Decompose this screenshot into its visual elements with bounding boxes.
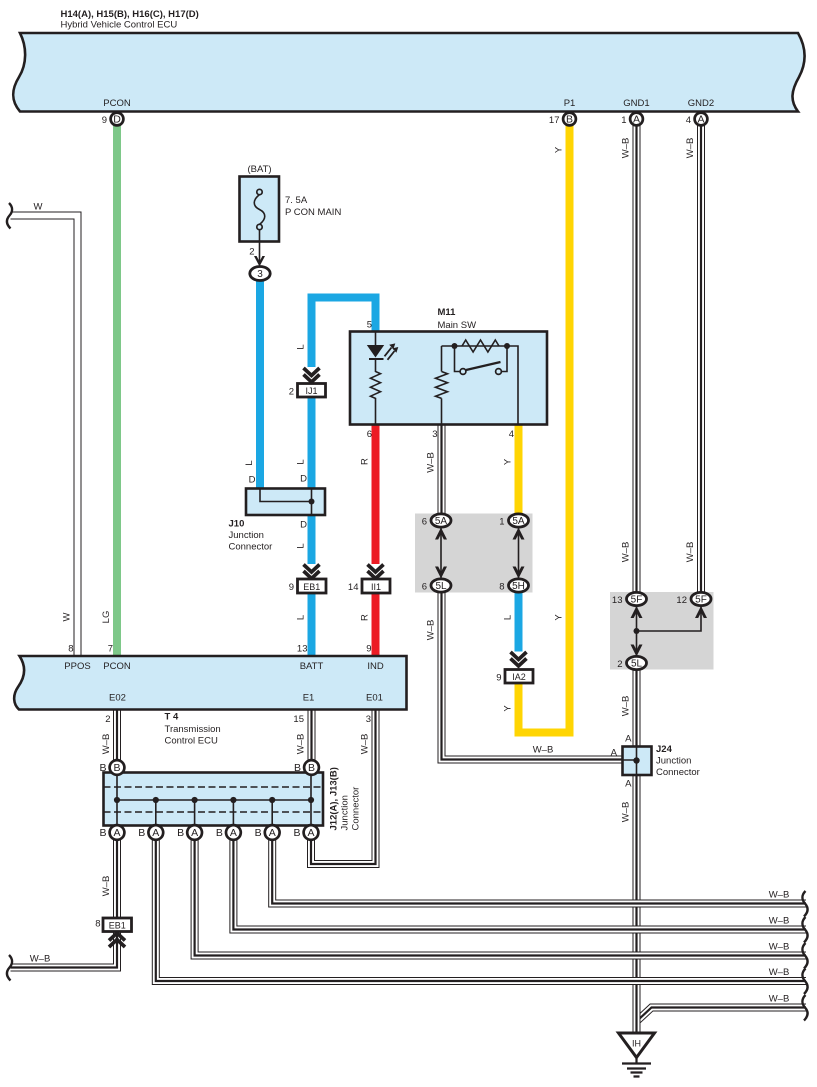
svg-text:Y: Y bbox=[503, 705, 514, 712]
svg-text:B: B bbox=[177, 827, 184, 839]
svg-text:A: A bbox=[113, 827, 120, 839]
svg-text:W–B: W–B bbox=[685, 542, 696, 563]
label B at J12 circle A3 bbox=[177, 827, 184, 839]
wire L blue from fuse circle 3 down to J10 bbox=[256, 281, 264, 490]
svg-text:B: B bbox=[255, 827, 262, 839]
svg-text:A: A bbox=[633, 114, 640, 126]
svg-text:J12(A), J13(B): J12(A), J13(B) bbox=[329, 767, 340, 830]
M11 horizontal resistor bbox=[462, 340, 499, 352]
label W-B ground wire below J24 bbox=[621, 802, 632, 823]
svg-text:5F: 5F bbox=[695, 594, 707, 605]
ECU block H14(A) H15(B) H16(C) H17(D) Hybrid Vehicle Control ECU bbox=[13, 33, 804, 112]
J12 circle A1 bbox=[110, 825, 125, 840]
connector EB1 bottom box pin 8 bbox=[103, 918, 132, 932]
svg-text:(BAT): (BAT) bbox=[247, 164, 271, 175]
label connector 1-5A bbox=[499, 517, 504, 528]
svg-text:9: 9 bbox=[102, 115, 107, 126]
wire break symbol right 4 bbox=[802, 969, 807, 995]
label L right wire above J10 bbox=[296, 459, 307, 464]
wire R red from M11 pin 6 to II1 bbox=[372, 425, 380, 565]
svg-text:D: D bbox=[300, 474, 307, 485]
svg-text:8: 8 bbox=[68, 644, 73, 655]
wire Y yellow from M11 pin 4 to connector 1-5A bbox=[515, 425, 523, 521]
svg-text:W–B: W–B bbox=[101, 734, 112, 755]
label W-B right edge 4 bbox=[769, 967, 790, 978]
wire break symbol right 1 bbox=[802, 891, 807, 917]
label W-B below T4 E01 bbox=[360, 734, 371, 755]
svg-text:W–B: W–B bbox=[426, 452, 437, 473]
label T4 E1 pin bbox=[293, 693, 314, 726]
label T4 title bbox=[165, 712, 221, 747]
svg-text:2: 2 bbox=[249, 247, 254, 258]
pin 4 circle A on H14 GND2 bbox=[695, 113, 708, 126]
svg-text:13: 13 bbox=[297, 644, 308, 655]
label Y below IA2 bbox=[503, 705, 514, 712]
svg-text:EB1: EB1 bbox=[303, 582, 320, 592]
wire break symbol right 3 bbox=[802, 943, 807, 969]
svg-text:Y: Y bbox=[554, 614, 565, 621]
svg-text:W–B: W–B bbox=[621, 542, 632, 563]
wire W-B from H14 GND1 pin 1A to connector 13-5F bbox=[633, 126, 641, 600]
wire W-B from connector 6-5L down and right to J24 bbox=[442, 586, 624, 760]
svg-text:4: 4 bbox=[686, 115, 691, 126]
connector 2-5L ellipse bbox=[627, 656, 647, 669]
label W-B on M11 pin3 wire bbox=[426, 452, 437, 473]
svg-text:W–B: W–B bbox=[621, 696, 632, 717]
svg-text:D: D bbox=[249, 475, 256, 486]
label L left wire above J10 bbox=[244, 460, 255, 465]
svg-text:8: 8 bbox=[499, 582, 504, 593]
connector IJ1 arrow bbox=[304, 368, 320, 382]
label B at J12 circle B left bbox=[99, 762, 106, 774]
svg-text:1: 1 bbox=[499, 517, 504, 528]
svg-text:II1: II1 bbox=[371, 582, 381, 592]
wire R red segment II1 to T4 IND pin 9 bbox=[372, 592, 380, 656]
label T4 IND pin bbox=[366, 644, 384, 673]
svg-text:PCON: PCON bbox=[103, 98, 131, 109]
label W horizontal bbox=[34, 202, 43, 213]
svg-text:P CON MAIN: P CON MAIN bbox=[285, 207, 341, 218]
label Y on P1 wire mid bbox=[554, 614, 565, 621]
connector IJ1 box pin 2 bbox=[298, 384, 326, 398]
M11 resistor below LED bbox=[371, 372, 381, 425]
svg-text:17: 17 bbox=[549, 115, 560, 126]
pin 17 circle B on H14 P1 bbox=[563, 113, 576, 126]
svg-text:8: 8 bbox=[95, 919, 100, 930]
label A above J24 bbox=[625, 734, 632, 745]
svg-text:5L: 5L bbox=[631, 658, 643, 669]
svg-text:6: 6 bbox=[422, 517, 427, 528]
svg-text:L: L bbox=[296, 344, 307, 349]
svg-text:A: A bbox=[697, 114, 704, 126]
label II1 pin 14 bbox=[348, 582, 359, 593]
wire W-B branch from ground wire to right edge break bbox=[638, 1008, 807, 1021]
label W-B below T4 E1 bbox=[296, 734, 307, 755]
wire L blue from connector 8-5H down to IA2 bbox=[515, 586, 523, 652]
label W-B right edge 3 bbox=[769, 942, 790, 953]
label W-B right edge 1 bbox=[769, 890, 790, 901]
connector shield box 5F/5L bbox=[610, 592, 714, 670]
connector II1 arrow bbox=[368, 565, 384, 579]
label T4 E01 pin bbox=[366, 693, 383, 726]
label L above T4 BATT bbox=[296, 615, 307, 620]
svg-text:W–B: W–B bbox=[30, 954, 51, 965]
svg-text:T 4: T 4 bbox=[165, 712, 179, 723]
svg-text:E02: E02 bbox=[109, 693, 126, 704]
M11 Main SW box bbox=[350, 332, 547, 425]
pin 9 circle D on H14 PCON bbox=[111, 113, 124, 126]
svg-text:Connector: Connector bbox=[656, 767, 700, 778]
label connector 8-5H bbox=[499, 582, 504, 593]
svg-text:LG: LG bbox=[101, 611, 112, 624]
svg-text:IA2: IA2 bbox=[512, 672, 526, 682]
svg-text:L: L bbox=[244, 460, 255, 465]
J12 circle A5 bbox=[265, 825, 280, 840]
svg-text:A: A bbox=[230, 827, 237, 839]
svg-text:B: B bbox=[99, 762, 106, 774]
label T4 E02 pin bbox=[105, 693, 126, 726]
wire L blue segment below IJ1 to J10 bbox=[308, 383, 316, 490]
svg-text:P1: P1 bbox=[564, 98, 576, 109]
svg-text:9: 9 bbox=[496, 673, 501, 684]
svg-text:J24: J24 bbox=[656, 744, 673, 755]
label B at J12 circle A2 bbox=[138, 827, 145, 839]
svg-text:L: L bbox=[503, 615, 514, 620]
label B at J12 circle A4 bbox=[216, 827, 223, 839]
label W-B above EB1 bottom bbox=[101, 876, 112, 897]
label GND1 pin bbox=[621, 98, 650, 126]
wire W-B from H14 GND2 pin 4A to connector 12-5F bbox=[697, 126, 705, 600]
svg-text:B: B bbox=[293, 827, 300, 839]
svg-text:BATT: BATT bbox=[300, 661, 324, 672]
connector 8-5H ellipse bbox=[509, 579, 529, 592]
wire W-B from J12 circle A1 through EB1 to left break bbox=[11, 840, 118, 968]
connector 1-5A ellipse bbox=[509, 514, 529, 527]
svg-text:R: R bbox=[360, 614, 371, 621]
fuse 7.5A P CON MAIN bbox=[240, 177, 280, 263]
svg-text:GND1: GND1 bbox=[623, 98, 649, 109]
wire W-B from J12 circle A4 to right edge break bbox=[233, 840, 806, 930]
label PCON pin bbox=[102, 98, 131, 126]
svg-text:2: 2 bbox=[105, 714, 110, 725]
svg-text:W–B: W–B bbox=[621, 802, 632, 823]
label W-B GND1 top bbox=[621, 138, 632, 159]
svg-text:W–B: W–B bbox=[769, 890, 790, 901]
svg-text:W–B: W–B bbox=[360, 734, 371, 755]
svg-text:W–B: W–B bbox=[621, 138, 632, 159]
label R above II1 bbox=[360, 458, 371, 465]
svg-text:W–B: W–B bbox=[426, 620, 437, 641]
M11 node dots bbox=[452, 343, 511, 349]
label W-B bottom left bbox=[30, 954, 51, 965]
label J10 title bbox=[229, 519, 273, 553]
svg-text:W: W bbox=[34, 202, 43, 213]
label EB1 pin 9 bbox=[289, 582, 294, 593]
svg-text:PCON: PCON bbox=[103, 661, 131, 672]
svg-text:A: A bbox=[611, 748, 618, 759]
wire break symbol left W bbox=[7, 203, 12, 229]
label connector 2-5L bbox=[617, 659, 622, 670]
label H14 title bbox=[61, 9, 199, 31]
wire W-B from M11 pin 3 to connector 6-5A bbox=[438, 425, 446, 521]
svg-text:B: B bbox=[113, 762, 120, 774]
wire break symbol right 2 bbox=[802, 917, 807, 943]
label A below J24 bbox=[625, 779, 632, 790]
wire W-B from T4 E1 pin 15 to J12 circle B bbox=[308, 710, 316, 768]
label J12 title rotated bbox=[329, 767, 362, 830]
ECU block T4 Transmission Control ECU bbox=[14, 656, 406, 710]
svg-text:W–B: W–B bbox=[769, 994, 790, 1005]
label W-B ground wire bbox=[621, 696, 632, 717]
svg-text:B: B bbox=[216, 827, 223, 839]
label D left wire above J10 bbox=[249, 475, 256, 486]
svg-text:B: B bbox=[308, 762, 315, 774]
label EB1 bottom pin 8 bbox=[95, 919, 100, 930]
wire L blue from J10 up and right to M11 pin 5 bbox=[312, 298, 376, 368]
label connector 6-5A bbox=[422, 517, 427, 528]
svg-text:3: 3 bbox=[366, 714, 371, 725]
wire break symbol right 5 bbox=[802, 995, 807, 1021]
svg-text:IH: IH bbox=[632, 1039, 641, 1049]
connector EB1 box pin 9 bbox=[298, 579, 327, 593]
svg-text:5A: 5A bbox=[435, 516, 448, 527]
label M11 pin 4 bbox=[509, 429, 514, 440]
svg-text:W–B: W–B bbox=[101, 876, 112, 897]
link between 5A and 5L with arrows bbox=[435, 528, 447, 579]
svg-text:PPOS: PPOS bbox=[64, 661, 90, 672]
svg-text:A: A bbox=[625, 734, 632, 745]
pin 1 circle A on H14 GND1 bbox=[630, 113, 643, 126]
svg-text:M11: M11 bbox=[438, 307, 457, 318]
svg-text:Junction: Junction bbox=[229, 530, 264, 541]
J12 circle B left bbox=[110, 760, 125, 775]
svg-text:3: 3 bbox=[257, 269, 263, 280]
wire L blue segment J10 to EB1 bbox=[308, 514, 316, 564]
label GND2 pin bbox=[686, 98, 715, 126]
svg-text:A: A bbox=[191, 827, 198, 839]
svg-text:E01: E01 bbox=[366, 693, 383, 704]
svg-text:9: 9 bbox=[289, 582, 294, 593]
label M11 title bbox=[438, 307, 477, 331]
label M11 pin 5 bbox=[367, 320, 372, 331]
label W-B right edge 2 bbox=[769, 916, 790, 927]
label W-B on M11 pin3 wire lower bbox=[426, 620, 437, 641]
arrow into fuse output circle 3 bbox=[254, 256, 265, 267]
label L above IA2 bbox=[503, 615, 514, 620]
label D right wire above J10 bbox=[300, 474, 307, 485]
wire W-B from J12 circle A3 to right edge break bbox=[195, 840, 806, 956]
J12 circle B right bbox=[304, 760, 319, 775]
svg-text:W–B: W–B bbox=[296, 734, 307, 755]
svg-text:B: B bbox=[294, 762, 301, 774]
svg-text:13: 13 bbox=[612, 595, 623, 606]
J12 circle A3 bbox=[187, 825, 202, 840]
svg-text:5: 5 bbox=[367, 320, 372, 331]
label W-B right edge 5 bbox=[769, 994, 790, 1005]
M11 LED indicator bbox=[367, 332, 399, 373]
svg-text:3: 3 bbox=[432, 429, 437, 440]
connector IA2 arrow bbox=[511, 652, 527, 666]
svg-text:5L: 5L bbox=[435, 581, 447, 592]
svg-text:14: 14 bbox=[348, 582, 359, 593]
wire W-B from J12 circle A2 to right edge break bbox=[156, 840, 806, 981]
svg-text:6: 6 bbox=[422, 582, 427, 593]
svg-text:12: 12 bbox=[676, 595, 687, 606]
svg-text:5A: 5A bbox=[512, 516, 525, 527]
label W-B below T4 E02 bbox=[101, 734, 112, 755]
wire W-B main ground from connector 2-5L through J24 to ground IH bbox=[633, 663, 641, 1033]
label W vertical bbox=[62, 612, 73, 621]
wire Y yellow from H14 pin 17B P1 down, left, up to IA2 bbox=[519, 126, 570, 733]
svg-text:6: 6 bbox=[367, 429, 372, 440]
svg-text:15: 15 bbox=[293, 714, 304, 725]
label T4 BATT pin bbox=[297, 644, 324, 673]
svg-text:2: 2 bbox=[289, 387, 294, 398]
label P1 pin bbox=[549, 98, 575, 126]
svg-text:Main SW: Main SW bbox=[438, 320, 477, 331]
svg-text:Control ECU: Control ECU bbox=[165, 736, 218, 747]
svg-text:W–B: W–B bbox=[533, 745, 554, 756]
svg-text:1: 1 bbox=[621, 115, 626, 126]
svg-text:GND2: GND2 bbox=[688, 98, 714, 109]
svg-text:A: A bbox=[269, 827, 276, 839]
junction connector J24 box bbox=[623, 747, 652, 776]
svg-text:Junction: Junction bbox=[656, 756, 691, 767]
connector IA2 box pin 9 bbox=[505, 670, 533, 684]
label M11 pin 6 bbox=[367, 429, 372, 440]
svg-text:4: 4 bbox=[509, 429, 514, 440]
M11 switch bbox=[455, 346, 508, 374]
svg-text:Y: Y bbox=[503, 458, 514, 465]
M11 resistor on pin 3 branch bbox=[436, 346, 448, 425]
J12 circle A4 bbox=[226, 825, 241, 840]
connector 6-5A ellipse bbox=[431, 514, 451, 527]
svg-text:Y: Y bbox=[554, 146, 565, 153]
svg-text:B: B bbox=[566, 114, 573, 126]
svg-text:J10: J10 bbox=[229, 519, 245, 530]
label Y on M11 pin4 wire bbox=[503, 458, 514, 465]
svg-text:7. 5A: 7. 5A bbox=[285, 195, 308, 206]
label A left of J24 bbox=[611, 748, 618, 759]
label W-B GND2 lower bbox=[685, 542, 696, 563]
connector EB1 bottom arrow bbox=[109, 933, 125, 947]
label B at J12 circle A6 bbox=[293, 827, 300, 839]
connector 6-5L ellipse bbox=[431, 579, 451, 592]
svg-text:E1: E1 bbox=[303, 693, 315, 704]
svg-text:2: 2 bbox=[617, 659, 622, 670]
svg-text:A: A bbox=[152, 827, 159, 839]
svg-text:L: L bbox=[296, 615, 307, 620]
label connector 6-5L bbox=[422, 582, 427, 593]
svg-text:A: A bbox=[307, 827, 314, 839]
svg-text:Connector: Connector bbox=[229, 542, 273, 553]
svg-text:Hybrid Vehicle Control ECU: Hybrid Vehicle Control ECU bbox=[61, 20, 178, 31]
svg-text:W–B: W–B bbox=[769, 916, 790, 927]
label IJ1 pin 2 bbox=[289, 387, 294, 398]
label BAT fuse bbox=[247, 164, 341, 258]
M11 internal node wiring bbox=[442, 346, 519, 425]
connector EB1 arrow mid bbox=[304, 565, 320, 579]
label IA2 pin 9 bbox=[496, 673, 501, 684]
wire PCON green LG from H14 pin 9D to T4 pin 7 bbox=[113, 126, 121, 657]
svg-text:D: D bbox=[300, 520, 307, 531]
wire L blue segment EB1 to T4 BATT pin 13 bbox=[308, 592, 316, 656]
wire break symbol left W-B bottom bbox=[7, 955, 12, 981]
label W-B GND1 lower bbox=[621, 542, 632, 563]
label connector 12-5F bbox=[676, 595, 687, 606]
svg-text:Junction: Junction bbox=[340, 795, 351, 830]
svg-text:W: W bbox=[62, 612, 73, 621]
wire W-B from T4 E02 pin 2 to J12 circle B bbox=[113, 710, 121, 768]
connector II1 box pin 14 bbox=[362, 579, 390, 593]
label J24 title bbox=[656, 744, 700, 778]
label T4 PPOS pin bbox=[64, 644, 90, 673]
svg-text:L: L bbox=[296, 459, 307, 464]
junction connector J10 box bbox=[246, 489, 325, 516]
svg-text:B: B bbox=[138, 827, 145, 839]
junction connector J12(A) J13(B) box bbox=[104, 773, 324, 833]
svg-text:D: D bbox=[113, 114, 121, 126]
J12 circle A6 bbox=[304, 825, 319, 840]
svg-text:L: L bbox=[296, 543, 307, 548]
svg-text:W–B: W–B bbox=[685, 138, 696, 159]
svg-text:W–B: W–B bbox=[769, 942, 790, 953]
connector 13-5F ellipse bbox=[627, 592, 647, 605]
svg-text:IJ1: IJ1 bbox=[305, 386, 317, 396]
svg-text:B: B bbox=[99, 827, 106, 839]
wire W-B from T4 E01 pin 3 down, left, up to J12 circle A6 bbox=[311, 710, 376, 865]
label D below J10 bbox=[300, 520, 307, 531]
label R above T4 IND bbox=[360, 614, 371, 621]
connector 12-5F ellipse bbox=[691, 592, 711, 605]
label T4 PCON pin bbox=[103, 644, 131, 673]
connector circle 3 below fuse bbox=[250, 267, 270, 281]
connector shield box 5A/5L-5H bbox=[415, 514, 533, 593]
label L below J10 bbox=[296, 543, 307, 548]
svg-text:R: R bbox=[360, 458, 371, 465]
svg-text:IND: IND bbox=[367, 661, 384, 672]
link between 5A and 5H with arrows bbox=[513, 528, 525, 579]
ground symbol IH bbox=[619, 1033, 655, 1077]
label B at J12 circle A1 bbox=[99, 827, 106, 839]
label B at J12 circle B right bbox=[294, 762, 301, 774]
label LG vertical bbox=[101, 611, 112, 624]
label B at J12 circle A5 bbox=[255, 827, 262, 839]
wire W-B from J12 circle A5 to right edge break bbox=[272, 840, 806, 904]
svg-text:Transmission: Transmission bbox=[165, 724, 221, 735]
wire W white from left break to T4 PPOS pin 8 bbox=[11, 216, 78, 657]
label L above IJ1 bbox=[296, 344, 307, 349]
svg-text:A: A bbox=[625, 779, 632, 790]
links between 5F pair and 5L with arrows and junction dot bbox=[631, 606, 708, 657]
svg-text:EB1: EB1 bbox=[109, 920, 126, 930]
label W-B on J24 horizontal wire bbox=[533, 745, 554, 756]
svg-text:5H: 5H bbox=[512, 581, 525, 592]
svg-text:Connector: Connector bbox=[351, 787, 362, 831]
label connector 13-5F bbox=[612, 595, 623, 606]
svg-text:9: 9 bbox=[366, 644, 371, 655]
label M11 pin 3 bbox=[432, 429, 437, 440]
label W-B GND2 top bbox=[685, 138, 696, 159]
svg-text:H14(A), H15(B), H16(C), H17(D): H14(A), H15(B), H16(C), H17(D) bbox=[61, 9, 199, 20]
label Y on P1 wire bbox=[554, 146, 565, 153]
J12 circle A2 bbox=[148, 825, 163, 840]
svg-text:7: 7 bbox=[108, 644, 113, 655]
svg-text:5F: 5F bbox=[631, 594, 643, 605]
svg-text:W–B: W–B bbox=[769, 967, 790, 978]
